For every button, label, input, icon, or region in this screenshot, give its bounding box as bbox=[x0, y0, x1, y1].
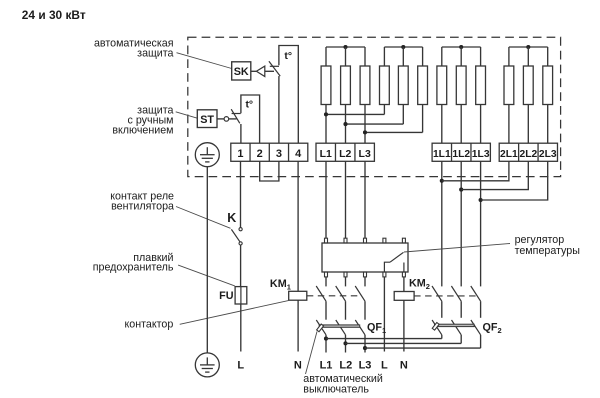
svg-text:SK: SK bbox=[234, 66, 249, 78]
callout to FU bbox=[178, 265, 235, 286]
wire 1L1 down bbox=[441, 161, 443, 286]
QF2 pole 2 bbox=[452, 320, 462, 335]
wire bus L3 QF1-QF2 bbox=[365, 347, 481, 349]
terminal block L1 L2 L3 bbox=[316, 143, 374, 161]
QF1 pole 2 bbox=[336, 320, 346, 335]
KM2 linkage bbox=[414, 295, 476, 297]
KM2 contact 3 bbox=[471, 286, 481, 301]
wire 2L3 to 1L3 bbox=[481, 161, 548, 200]
wire 1L3 down bbox=[480, 161, 482, 286]
heater element B2 bbox=[402, 47, 404, 66]
node QF1 out 1 bbox=[324, 337, 328, 341]
heater element C2 bbox=[460, 47, 462, 66]
wire L1 to regulator pin1 bbox=[325, 161, 327, 238]
svg-text:1L3: 1L3 bbox=[472, 149, 490, 160]
node A1 junction bbox=[324, 112, 328, 116]
svg-text:K: K bbox=[227, 211, 236, 225]
wire L2 to regulator pin2 bbox=[345, 161, 347, 238]
wire PE bbox=[206, 167, 208, 353]
regulator internal contact bbox=[384, 262, 390, 272]
fuse FU bbox=[235, 287, 247, 304]
heater group A star bar bbox=[326, 46, 365, 48]
svg-text:2L2: 2L2 bbox=[519, 149, 537, 160]
wire terminal4 to KM1 coil bbox=[297, 161, 299, 291]
terminal block 1 2 3 4 bbox=[231, 143, 308, 161]
QF2 handle bbox=[432, 322, 439, 330]
QF2 pole 3 bbox=[471, 320, 481, 335]
KM1 contact 1 bbox=[325, 277, 327, 287]
node A3 junction bbox=[363, 130, 367, 134]
wire FU to L bbox=[240, 304, 242, 352]
svg-text:L1: L1 bbox=[320, 148, 332, 160]
heater group C star bar bbox=[442, 46, 481, 48]
svg-text:1: 1 bbox=[237, 148, 243, 160]
regulator pin 3 bottom stub bbox=[364, 272, 367, 277]
QF1 gang bar bbox=[319, 325, 360, 327]
regulator pin 2 top stub bbox=[344, 238, 347, 243]
regulator pin 4 bottom stub bbox=[383, 272, 386, 277]
heater element A1 bbox=[325, 47, 327, 66]
svg-text:2: 2 bbox=[257, 148, 263, 160]
callout to ST bbox=[176, 112, 198, 118]
QF2 gang bar bbox=[435, 324, 475, 326]
ST contact tick bbox=[232, 113, 241, 115]
wire heater A3-B3 bbox=[365, 131, 423, 133]
fan relay contact K bbox=[239, 228, 242, 231]
contactor coil KM2 bbox=[394, 292, 414, 301]
heater element D1 bbox=[508, 47, 510, 66]
wire bus L1 QF1-QF2 bbox=[326, 338, 442, 340]
node A star point bbox=[343, 45, 347, 49]
QF2 pole 1 bbox=[432, 320, 442, 335]
callout to QF1 handle bbox=[306, 332, 318, 375]
wire arrow to SK blade bbox=[265, 70, 274, 72]
thermal cutout ST bbox=[197, 110, 217, 128]
callout to K contact bbox=[176, 207, 231, 229]
regulator pin 5 top stub bbox=[402, 238, 405, 243]
wire regulator pin4 to L bbox=[383, 277, 385, 352]
regulator pin 5 bottom stub bbox=[402, 272, 405, 277]
svg-text:24 и 30 кВт: 24 и 30 кВт bbox=[22, 8, 86, 22]
wire heater A2-B2 bbox=[346, 123, 404, 125]
heater element B3 bbox=[422, 47, 424, 66]
callout to KM1 coil bbox=[180, 301, 289, 325]
node C star point bbox=[459, 45, 463, 49]
thermal cutout SK bbox=[232, 62, 251, 80]
ST contact blade bbox=[231, 109, 240, 123]
svg-text:2L3: 2L3 bbox=[539, 149, 557, 160]
heater element A2 bbox=[345, 47, 347, 66]
SK contact blade bbox=[269, 61, 280, 76]
wire terminal1 to K bbox=[240, 161, 242, 227]
ST reset button bbox=[224, 117, 229, 122]
wire KM2 coil to N bbox=[403, 300, 405, 351]
QF1 pole 3 bbox=[355, 320, 365, 335]
heater element D2 bbox=[527, 47, 529, 66]
svg-text:N: N bbox=[400, 360, 408, 372]
SK contact tick bbox=[270, 65, 279, 67]
QF1 handle bbox=[317, 324, 324, 332]
node 1L1 link bbox=[440, 179, 444, 183]
callout to regulator bbox=[404, 244, 510, 253]
terminal block 1L1 1L2 1L3 bbox=[432, 143, 490, 161]
ground (supply PE) bbox=[195, 353, 219, 377]
node 1L3 link bbox=[479, 198, 483, 202]
ground (enclosure PE) bbox=[195, 143, 219, 167]
wire button to ST blade bbox=[229, 118, 237, 120]
heater element C3 bbox=[480, 47, 482, 66]
wire heater A1-B1 bbox=[326, 113, 384, 115]
regulator pin 4 top stub bbox=[383, 238, 386, 243]
regulator pin 3 top stub bbox=[364, 238, 367, 243]
svg-text:1L1: 1L1 bbox=[433, 149, 451, 160]
KM1 contact 3 bbox=[364, 277, 366, 287]
svg-text:ST: ST bbox=[200, 114, 214, 126]
heater group B star bar bbox=[384, 46, 422, 48]
svg-text:контактор: контактор bbox=[124, 318, 173, 330]
KM1 linkage bbox=[307, 295, 360, 297]
wire 1L2 down bbox=[460, 161, 462, 286]
svg-text:L: L bbox=[237, 360, 244, 372]
svg-text:2L1: 2L1 bbox=[500, 149, 518, 160]
svg-text:L3: L3 bbox=[359, 360, 372, 372]
svg-text:L2: L2 bbox=[339, 360, 352, 372]
node D star point bbox=[526, 45, 530, 49]
regulator pin 2 bottom stub bbox=[344, 272, 347, 277]
svg-text:FU: FU bbox=[219, 290, 234, 302]
wire 2L2 to 1L2 bbox=[461, 161, 528, 189]
wire bus L2 QF1-QF2 bbox=[346, 342, 462, 344]
wire L3 to regulator pin3 bbox=[364, 161, 366, 238]
wire regulator pin5 to KM2 coil bbox=[403, 277, 405, 292]
svg-text:1L2: 1L2 bbox=[452, 149, 470, 160]
wire K to FU bbox=[240, 245, 242, 287]
svg-text:3: 3 bbox=[276, 148, 282, 160]
SK contact arrow bbox=[256, 66, 264, 76]
enclosure dashed box bbox=[188, 37, 561, 176]
KM2 contact 1 bbox=[432, 286, 442, 301]
temperature regulator box bbox=[322, 243, 408, 272]
regulator pin 1 bottom stub bbox=[325, 272, 328, 277]
thermal sensor box t° (upper) bbox=[279, 46, 298, 144]
heater group D star bar bbox=[509, 46, 548, 48]
KM2 contact 2 bbox=[451, 286, 461, 301]
node 1L2 link bbox=[459, 188, 463, 192]
wire ST to button bbox=[217, 118, 224, 120]
svg-text:L: L bbox=[381, 360, 388, 372]
terminal block 2L1 2L2 2L3 bbox=[499, 143, 557, 161]
heater element A3 bbox=[364, 47, 366, 66]
KM1 contact 2 bbox=[345, 277, 347, 287]
regulator pin 1 top stub bbox=[325, 238, 328, 243]
node QF1 out 2 bbox=[343, 341, 347, 345]
wire 2L1 to 1L1 bbox=[442, 161, 509, 181]
wire KM1 coil to N bbox=[297, 300, 299, 351]
jumper terminals 2-3 bbox=[260, 161, 279, 181]
wire SK to arrow bbox=[251, 70, 257, 72]
heater element B1 bbox=[383, 47, 385, 66]
node B star point bbox=[401, 45, 405, 49]
thermal sensor box t° (lower) bbox=[241, 95, 260, 143]
svg-text:L3: L3 bbox=[359, 148, 371, 160]
svg-text:N: N bbox=[294, 360, 302, 372]
heater element C1 bbox=[441, 47, 443, 66]
QF1 pole 1 bbox=[316, 320, 326, 335]
svg-text:контакт релевентилятора: контакт релевентилятора bbox=[110, 190, 174, 212]
svg-text:t°: t° bbox=[245, 98, 253, 110]
svg-text:L1: L1 bbox=[320, 360, 333, 372]
callout to SK bbox=[177, 53, 232, 69]
node A2 junction bbox=[343, 122, 347, 126]
heater element D3 bbox=[547, 47, 549, 66]
node QF1 out 3 bbox=[363, 346, 367, 350]
svg-text:4: 4 bbox=[295, 148, 302, 160]
contactor coil KM1 bbox=[289, 291, 307, 300]
svg-text:t°: t° bbox=[284, 50, 292, 62]
svg-text:L2: L2 bbox=[339, 148, 351, 160]
